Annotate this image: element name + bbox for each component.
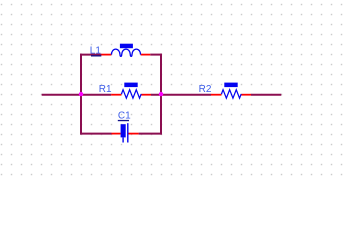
svg-text:C1: C1 xyxy=(118,110,131,121)
svg-text:R2: R2 xyxy=(199,84,212,95)
svg-text:L1: L1 xyxy=(90,45,102,56)
svg-text:R1: R1 xyxy=(99,84,112,95)
